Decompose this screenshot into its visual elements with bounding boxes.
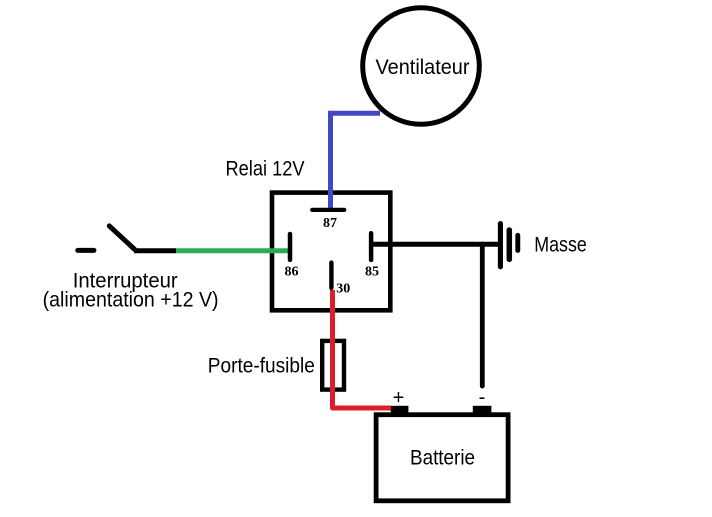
relay pin 87 terminal bar (312, 208, 344, 212)
relay K1 body (Relai 12V) (272, 193, 390, 311)
svg-text:Porte-fusible: Porte-fusible (208, 355, 315, 378)
svg-text:-: - (479, 386, 486, 408)
svg-text:Masse: Masse (534, 234, 587, 257)
wire (blue) elbow down to relay pin 87, vertical segment (328, 111, 333, 208)
wire (red) relay pin 30 down through fuse to elbow (333, 290, 392, 408)
ground symbol bar 2 (middle) (507, 230, 513, 259)
ground symbol bar 1 (tallest) (498, 224, 503, 267)
relay pin 86 terminal bar (288, 234, 293, 260)
svg-text:Relai 12V: Relai 12V (226, 158, 305, 181)
fuse holder F1 body (Porte-fusible) (322, 341, 344, 390)
switch S1 lever (open blade) (109, 226, 134, 250)
battery negative terminal stub (473, 406, 492, 415)
relay pin 30 terminal bar (329, 263, 333, 288)
switch S1 fixed contact dash (78, 248, 94, 253)
wire (green) switch to relay pin 86 (176, 248, 289, 253)
svg-text:85: 85 (365, 265, 379, 280)
battery BT1 body (Batterie) (376, 415, 508, 501)
svg-text:+: + (393, 387, 405, 409)
battery positive terminal stub (391, 406, 409, 415)
svg-text:(alimentation +12 V): (alimentation +12 V) (43, 289, 219, 312)
wire (blue) fan to elbow, horizontal segment (331, 111, 381, 116)
wire (black) relay pin 85 to ground, horizontal segment (372, 242, 498, 247)
ground symbol bar 3 (shortest) (515, 235, 520, 250)
svg-text:87: 87 (323, 216, 337, 231)
fan motor M1 (Ventilateur) (363, 8, 480, 125)
svg-text:Ventilateur: Ventilateur (376, 56, 470, 79)
relay pin 85 terminal bar (369, 233, 374, 260)
wire (black) junction at ground branch down to battery negative (480, 244, 485, 386)
svg-text:86: 86 (285, 265, 299, 280)
svg-text:30: 30 (336, 282, 350, 297)
svg-text:Batterie: Batterie (410, 447, 475, 470)
wire (black) switch output segment (134, 248, 176, 253)
